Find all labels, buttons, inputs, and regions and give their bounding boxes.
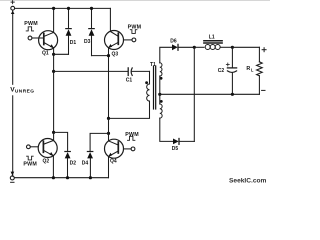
capacitor C2	[226, 47, 236, 94]
node VUNREG label	[10, 87, 34, 95]
svg-text:D2: D2	[70, 160, 77, 166]
wire Q3 collector (top rail corner)	[109, 8, 111, 31]
node secondary upper polarity dot	[160, 77, 163, 80]
node center tap	[158, 93, 161, 96]
wire secondary top lead	[160, 47, 172, 63]
svg-text:D1: D1	[70, 40, 77, 46]
svg-text:PWM: PWM	[24, 21, 38, 27]
node secondary lower polarity dot	[160, 100, 163, 103]
wire node A to C1	[54, 70, 128, 72]
transistor Q2	[38, 139, 57, 158]
node primary bottom junction	[107, 117, 110, 120]
wire Q3 emitter down	[108, 48, 110, 119]
node Q2 emitter junction	[52, 176, 55, 179]
terminal Q2 base	[27, 145, 31, 149]
pulse icon Q2 (negative pulse)	[27, 156, 34, 160]
node D3 top junction	[90, 7, 93, 10]
wire primary bottom lead	[109, 101, 150, 118]
svg-text:PWM: PWM	[128, 25, 142, 31]
node Q1 collector junction	[52, 7, 55, 10]
wire Q4 base lead	[124, 148, 132, 150]
svg-text:D3: D3	[84, 39, 91, 45]
svg-text:D6: D6	[170, 39, 177, 45]
wire L1 to output corner	[232, 46, 259, 48]
wire secondary bottom lead	[160, 118, 173, 141]
transformer T1 core	[154, 66, 156, 109]
transformer T1 primary winding	[147, 84, 150, 101]
svg-text:D5: D5	[172, 146, 179, 152]
svg-text:R: R	[246, 66, 250, 72]
diode D1	[54, 8, 72, 54]
wire top rail	[15, 7, 111, 9]
node D1 top junction	[67, 7, 70, 10]
wire Q1 emitter down	[53, 48, 55, 72]
wire Q1 base lead	[32, 37, 44, 39]
wire C1 to primary top	[149, 71, 151, 84]
wire D5 cathode riser	[193, 47, 195, 141]
wire Q3 base lead	[124, 39, 133, 41]
diode D5	[173, 139, 194, 145]
wire output bottom rail (center tap to load)	[160, 93, 260, 95]
label RL	[246, 66, 254, 73]
svg-text:UNREG: UNREG	[15, 88, 35, 94]
wire D4 jog	[90, 133, 108, 151]
transformer T1 secondary upper winding	[160, 63, 162, 76]
wire Q1 collector	[53, 8, 55, 32]
pulse icon Q1 (positive pulse)	[26, 27, 33, 31]
svg-text:C1: C1	[126, 77, 133, 83]
transistor Q1	[39, 31, 58, 50]
node D4 jog junction	[107, 132, 110, 135]
terminal Q1 base	[28, 36, 32, 40]
diode D4	[87, 152, 93, 178]
inductor L1	[204, 41, 233, 50]
capacitor C1	[128, 68, 149, 76]
diode D6	[172, 44, 194, 50]
pulse icon Q4 (positive pulse)	[128, 136, 135, 140]
svg-text:PWM: PWM	[23, 162, 37, 168]
svg-text:Q3: Q3	[112, 51, 119, 57]
terminal Q3 base	[132, 38, 136, 42]
transformer T1 secondary lower winding	[160, 104, 162, 118]
svg-text:Q2: Q2	[43, 158, 50, 164]
node C2 bottom junction	[231, 93, 234, 96]
node C2 top junction	[231, 46, 234, 49]
wire right leg Q4 collector	[108, 118, 110, 141]
transistor Q3 (base right)	[105, 31, 124, 50]
svg-text:L: L	[251, 67, 254, 72]
transistor Q4 (base right)	[105, 139, 124, 158]
wire rectifier junction to L1	[194, 46, 204, 48]
node D1 jog junction	[52, 53, 55, 56]
terminal + (positive input)	[11, 1, 15, 10]
wire secondary to center tap	[159, 76, 161, 104]
diode D2	[65, 152, 71, 178]
svg-text:L1: L1	[209, 34, 215, 40]
node D2 bottom junction	[66, 176, 69, 179]
wire Q2 collector	[53, 132, 55, 140]
wire Q2 base lead	[30, 146, 38, 148]
svg-text:PWM: PWM	[125, 132, 139, 138]
wire bottom rail	[14, 177, 108, 179]
node D4 bottom junction	[89, 176, 92, 179]
wire D2 jog	[54, 132, 68, 151]
wire Q2 emitter	[52, 156, 54, 178]
node rectifier junction	[193, 46, 196, 49]
node D3 jog junction	[107, 54, 110, 57]
node primary polarity dot	[145, 81, 148, 84]
terminal - (negative input)	[10, 176, 14, 182]
label + output	[262, 48, 266, 52]
diode D3	[89, 8, 109, 55]
wire left rail (VUNREG feed)	[11, 10, 15, 176]
node D2 jog junction (Q2 collector)	[52, 131, 55, 134]
svg-text:C2: C2	[218, 68, 225, 74]
svg-text:D4: D4	[82, 160, 89, 166]
wire Q1-Q2 leg	[53, 71, 55, 132]
wire Q4 emitter	[108, 156, 110, 177]
node A junction (Q1 emitter to primary)	[52, 70, 55, 73]
terminal Q4 base	[131, 147, 135, 151]
svg-text:SeekIC.com: SeekIC.com	[229, 178, 267, 185]
svg-text:Q1: Q1	[42, 51, 49, 57]
label - output	[262, 89, 265, 91]
pulse icon Q3 (negative pulse)	[130, 30, 137, 34]
PWM label Q1	[24, 21, 38, 27]
resistor RL	[257, 47, 263, 94]
svg-text:Q4: Q4	[110, 159, 117, 165]
